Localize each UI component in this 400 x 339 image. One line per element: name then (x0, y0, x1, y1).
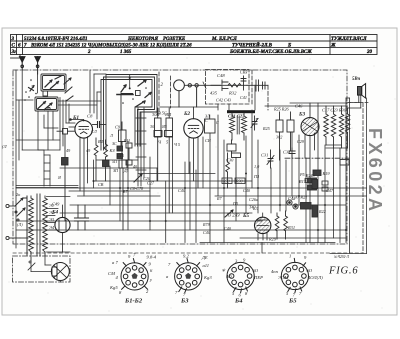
svg-text:6О: 6О (307, 268, 313, 273)
wire speaker to output transformer (347, 103, 361, 108)
resistor R17 box (dark) (308, 178, 317, 183)
svg-text:ВЗКОМ 4Л 151 234235 12 Ч(А)МОВ: ВЗКОМ 4Л 151 234235 12 Ч(А)МОВЫХ(23)25-3… (30, 43, 192, 48)
svg-text:С21 С22: С21 С22 (228, 114, 245, 119)
svg-text:R11: R11 (123, 138, 130, 143)
vertical drop wires right-middle (236, 98, 350, 253)
resistor R19 box (dark) (313, 170, 321, 176)
AGC dash-dot wire (285, 157, 349, 159)
output transformer secondary (345, 108, 350, 148)
svg-text:Ч 5: Ч 5 (174, 142, 180, 147)
svg-text:Б5: Б5 (288, 297, 297, 304)
svg-text:Р5: Р5 (299, 172, 305, 177)
svg-text:2: 2 (139, 270, 141, 274)
svg-text:R30: R30 (222, 179, 229, 184)
IF transformer T1 secondary coil (242, 113, 247, 140)
svg-text:Б1: Б1 (72, 115, 79, 121)
svg-text:Зг: Зг (11, 50, 17, 55)
svg-text:С40: С40 (178, 188, 186, 193)
svg-text:С40: С40 (243, 188, 251, 193)
svg-text:С34: С34 (283, 150, 291, 155)
capacitor C9 box column (119, 122, 128, 230)
tuning gang rotor circle (174, 80, 240, 107)
2nd dashed shield fragment (251, 70, 253, 105)
capacitor C30 box (232, 153, 241, 196)
resistor R9 zigzag (226, 153, 230, 188)
svg-text:4пп: 4пп (271, 269, 279, 274)
mains terminal 1 (6, 204, 15, 207)
svg-text:FX602A: FX602A (365, 128, 385, 214)
tube socket B4 (bottom view) (227, 262, 254, 292)
svg-text:6О: 6О (253, 268, 259, 273)
left wire to volume (16, 100, 60, 186)
resistor R32 zigzag in dashed box (228, 84, 247, 88)
power transformer secondary winding (43, 196, 48, 255)
oscillator contact square (136, 91, 141, 96)
mains voltage selector switch (15, 196, 27, 255)
svg-text:4ОЛ(Л): 4ОЛ(Л) (308, 275, 323, 280)
svg-text:Б2: Б2 (183, 111, 190, 117)
oscillator contact dots (122, 77, 147, 104)
trimmer capacitor C19 (251, 116, 258, 219)
phono jack outer (287, 200, 292, 205)
title block table (11, 35, 378, 59)
svg-text:П5: П5 (232, 201, 238, 206)
svg-text:ДЕ: ДЕ (201, 255, 208, 260)
svg-text:3: 3 (11, 37, 15, 42)
IF can box right of B2 (205, 115, 216, 133)
socket B4 pin labels (221, 258, 263, 298)
resistor R13 box (dark) (308, 185, 317, 190)
output IF coil L7 (324, 106, 329, 145)
svg-text:FIG.6: FIG.6 (328, 266, 358, 277)
svg-text:С26а: С26а (249, 197, 258, 202)
wires band switch to oscillator bank (58, 101, 101, 105)
wires from band switch to B1 (22, 70, 75, 150)
cathode bus wire (69, 191, 160, 196)
trimmer capacitor C31 (267, 150, 274, 168)
C26a T40 labels (224, 197, 258, 231)
bypass resistor R31 zigzag (284, 211, 288, 239)
svg-text:9.2: 9.2 (183, 253, 189, 258)
svg-text:С15: С15 (117, 153, 124, 158)
tube socket B3 (bottom view) (175, 259, 202, 293)
L3 2L3 labels with arrow (225, 213, 240, 218)
R24 small boxes cluster (305, 179, 328, 192)
capacitor C8 at B1 anode (93, 122, 107, 128)
svg-text:КЗ: КЗ (109, 148, 116, 153)
svg-text:ПЕР: ПЕР (253, 275, 263, 280)
socket B3 pin labels (166, 253, 212, 297)
svg-text:а11: а11 (203, 263, 210, 268)
svg-text:С29: С29 (297, 139, 305, 144)
switch contact dots left (24, 79, 37, 101)
svg-text:С42 С43: С42 С43 (216, 98, 231, 103)
mains terminal 2 (6, 236, 20, 239)
svg-text:БОЕЖТВ.БЛ-МАТ.СЖЕ.ОБ.ЛВ.ВСЖ: БОЕЖТВ.БЛ-МАТ.СЖЕ.ОБ.ЛВ.ВСЖ (229, 50, 312, 55)
resistor R22 box (dark) (312, 205, 318, 217)
svg-text:С49: С49 (52, 202, 60, 207)
svg-text:С40: С40 (203, 230, 211, 235)
svg-text:С: С (205, 118, 208, 123)
tube socket B5 (bottom view) (281, 258, 308, 292)
resistor chain R11 box (dark) (117, 154, 123, 159)
svg-text:С8: С8 (87, 114, 93, 119)
output transformer primary (339, 106, 344, 148)
svg-text:С40: С40 (224, 226, 232, 231)
power transformer core (37, 194, 40, 256)
svg-text:С48: С48 (217, 73, 225, 78)
svg-text:С9: С9 (115, 125, 121, 130)
band switch S1 contact square (43, 91, 48, 96)
svg-text:51234 6.8.10ТНЛ-ВЧ 216.4Л1: 51234 6.8.10ТНЛ-ВЧ 216.4Л1 (24, 37, 88, 42)
title block row 2 text (12, 41, 337, 48)
secondary taps S1-S4 (47, 197, 71, 253)
svg-text:(Л): (Л) (17, 222, 23, 227)
svg-text:R31: R31 (287, 225, 295, 230)
antenna coil arrows (64, 78, 73, 101)
svg-text:а 7: а 7 (112, 260, 118, 265)
svg-text:С37 R21: С37 R21 (292, 195, 308, 200)
resistor chain R13a box (126, 160, 132, 165)
tube B1 (75, 121, 93, 197)
row of resistor boxes under B2 area (154, 131, 173, 137)
svg-text:1: 1 (129, 270, 131, 274)
pilot lamp wires (28, 255, 60, 282)
svg-text:4О: 4О (226, 274, 232, 279)
svg-text:ЗС: ЗС (112, 141, 117, 146)
oscillator coil bank stepped shield (101, 75, 157, 151)
mixer top wire (160, 106, 218, 108)
svg-text:5Вч: 5Вч (352, 77, 361, 82)
junction dots (93, 173, 348, 232)
wire dashed box down to IF bar (218, 104, 229, 110)
svg-text:1 365: 1 365 (120, 50, 132, 55)
svg-text:СВЗ: СВЗ (240, 70, 247, 75)
svg-text:Кg3: Кg3 (203, 275, 212, 280)
svg-text:Б5: Б5 (242, 213, 249, 219)
svg-text:С8-С78: С8-С78 (130, 186, 144, 191)
svg-text:СВ: СВ (98, 182, 104, 187)
svg-text:2: 2 (87, 50, 91, 55)
misc small labels lower area (17, 164, 334, 235)
section divider double line (16, 186, 78, 188)
svg-text:Кg5: Кg5 (109, 285, 118, 290)
svg-text:ТУЧЕРНЕЙ-2Л.В: ТУЧЕРНЕЙ-2Л.В (232, 41, 273, 48)
socket B5 pin labels (271, 253, 323, 297)
left rail wire (16, 70, 19, 248)
title block row 3 text (11, 50, 373, 55)
cathode resistor R29 zigzag (275, 213, 279, 239)
svg-text:СИ: СИ (205, 138, 212, 143)
terminal strip boxes (301, 203, 312, 210)
R30 label box b (235, 178, 245, 184)
output tube B5 (255, 213, 271, 240)
svg-text:Б3: Б3 (298, 112, 305, 118)
resistor R4 zigzag (104, 140, 108, 160)
rectifier tube B4 (55, 205, 70, 252)
wires above IF coils (265, 103, 348, 148)
svg-text:1: 1 (289, 253, 291, 258)
resistor R1 box left of B1 (57, 129, 75, 158)
coupling capacitor C44 (256, 80, 265, 91)
detector boxes labels (273, 107, 289, 140)
band switch S2 box (35, 97, 58, 111)
svg-text:М. ЕЛ.РСЛ: М. ЕЛ.РСЛ (211, 37, 237, 42)
IF coupling box column C11 (166, 108, 173, 213)
resistor R8 box below IF1 (227, 140, 236, 153)
resistor R2 box (dark) (62, 158, 69, 222)
resistor chain R12 box (126, 143, 132, 160)
chassis dash-dot frame (13, 70, 347, 244)
svg-text:Я: Я (57, 175, 61, 180)
resistor R24 box (dark) (312, 180, 318, 189)
svg-text:Б1-Б2: Б1-Б2 (124, 297, 143, 304)
antenna terminal arrow 1 (19, 57, 25, 70)
svg-text:ПЗ: ПЗ (253, 174, 259, 179)
R30 label box a (222, 178, 232, 184)
svg-text:С27: С27 (147, 181, 155, 186)
svg-text:Б3: Б3 (180, 297, 189, 304)
oscillator coil arrows (136, 80, 151, 107)
detector diode load boxes (276, 112, 294, 160)
antenna coil wiper T (29, 86, 35, 92)
filter capacitor C51 (82, 205, 89, 230)
svg-text:R24о: R24о (305, 173, 314, 178)
svg-text:С31: С31 (261, 153, 268, 158)
title block row 1 text (11, 37, 368, 42)
pilot lamp dash-dot box (13, 256, 71, 282)
C41 C42 labels (240, 70, 247, 101)
svg-text:＊: ＊ (221, 268, 226, 273)
svg-text:R25 R26: R25 R26 (273, 107, 289, 112)
svg-text:R32: R32 (228, 91, 237, 96)
wire from dashed box to right (247, 85, 268, 110)
AVC filter dashed box (206, 70, 250, 105)
tap labels (49, 203, 55, 230)
svg-text:Б4: Б4 (51, 210, 58, 216)
pilot lamp tube (51, 263, 69, 281)
svg-text:302: 302 (276, 135, 282, 140)
phono jack inner (293, 204, 298, 209)
socket B1-B2 pin labels (108, 253, 157, 295)
IF can labels (205, 114, 219, 126)
trimmer arrow C14 (134, 174, 142, 182)
chassis frame right extension wires (330, 98, 368, 254)
power transformer primary winding (20, 196, 33, 262)
IF transformer T1 core (237, 116, 239, 134)
R29 R31 labels (268, 196, 296, 242)
svg-text:R4: R4 (97, 139, 104, 144)
wires top frame to B1 anode (90, 70, 106, 113)
coupling boxes labels (152, 112, 172, 145)
tube socket B1-B2 (bottom view) (121, 259, 148, 290)
resistor R3 zigzag below B1 (94, 138, 98, 181)
tube B3 (metal, hatched) (301, 103, 319, 196)
svg-text:R7: R7 (122, 189, 129, 194)
svg-text:R79: R79 (202, 222, 211, 227)
resistor chain labels (112, 138, 137, 173)
mixer shield box edge (159, 72, 171, 112)
svg-text:С47: С47 (326, 188, 334, 193)
capacitor C41 in dashed box (241, 76, 246, 90)
antenna terminal arrow 2 (35, 57, 41, 74)
filter capacitor C50 (75, 205, 82, 230)
svg-text:9.8-4: 9.8-4 (147, 255, 157, 260)
tone switch arrow (225, 210, 233, 217)
oscillator switch wiper (117, 85, 133, 95)
oscillator feed wire (97, 75, 130, 120)
volume control wire bundle (136, 108, 146, 186)
svg-text:R7: R7 (216, 196, 223, 201)
svg-text:Ж: Ж (330, 43, 336, 48)
svg-text:НЕКОТОРАЯ: НЕКОТОРАЯ (127, 37, 159, 42)
resistor chain R10 box (dark) (117, 146, 123, 151)
chassis outer dashed boundary (13, 252, 363, 254)
vertical drop wires left-middle (94, 115, 225, 243)
loudspeaker (358, 84, 366, 108)
svg-text:Я5: Я5 (161, 124, 167, 129)
svg-text:435: 435 (210, 91, 218, 96)
wires below band switch S2 (38, 111, 53, 150)
svg-text:РОЗЕТКЕ: РОЗЕТКЕ (163, 37, 186, 42)
svg-text:20: 20 (366, 50, 373, 55)
band switch S1 box (41, 74, 66, 91)
output IF coil L8 (331, 106, 336, 148)
misc small labels mid area (66, 118, 305, 158)
svg-text:R25: R25 (262, 126, 270, 131)
resistor R5 box (dark) (103, 160, 110, 181)
svg-text:Л3 2ЛЗ: Л3 2ЛЗ (225, 213, 240, 218)
svg-text:R29: R29 (268, 237, 277, 242)
grid cap wire of B1 (70, 119, 84, 121)
svg-text:Б4: Б4 (234, 297, 243, 304)
svg-text:ТУЖЛЛТ.ВЛСЛ: ТУЖЛЛТ.ВЛСЛ (331, 37, 367, 42)
dark bus bar node (227, 110, 255, 113)
svg-text:№Ч292-Л: №Ч292-Л (333, 255, 349, 259)
tube B2 (184, 107, 203, 188)
svg-text:Э4: Э4 (49, 225, 55, 230)
svg-text:R17: R17 (298, 179, 307, 184)
C34 capacitor (289, 148, 295, 158)
svg-text:ЭОМ: ЭОМ (278, 275, 289, 280)
horizontal bus wires lower half (16, 160, 367, 243)
svg-text:С41: С41 (240, 95, 247, 100)
resistor R33 box right rail (340, 160, 349, 166)
svg-text:5В 5С: 5В 5С (156, 111, 167, 116)
IF coupling box column C10 (155, 108, 162, 181)
svg-text:R22: R22 (318, 209, 326, 214)
svg-text:С: С (216, 120, 219, 125)
svg-text:R19: R19 (322, 171, 331, 176)
svg-text:R30: R30 (235, 179, 242, 184)
IF transformer T1 primary coil (230, 113, 235, 140)
capacitor C48 in dashed box (211, 80, 228, 91)
